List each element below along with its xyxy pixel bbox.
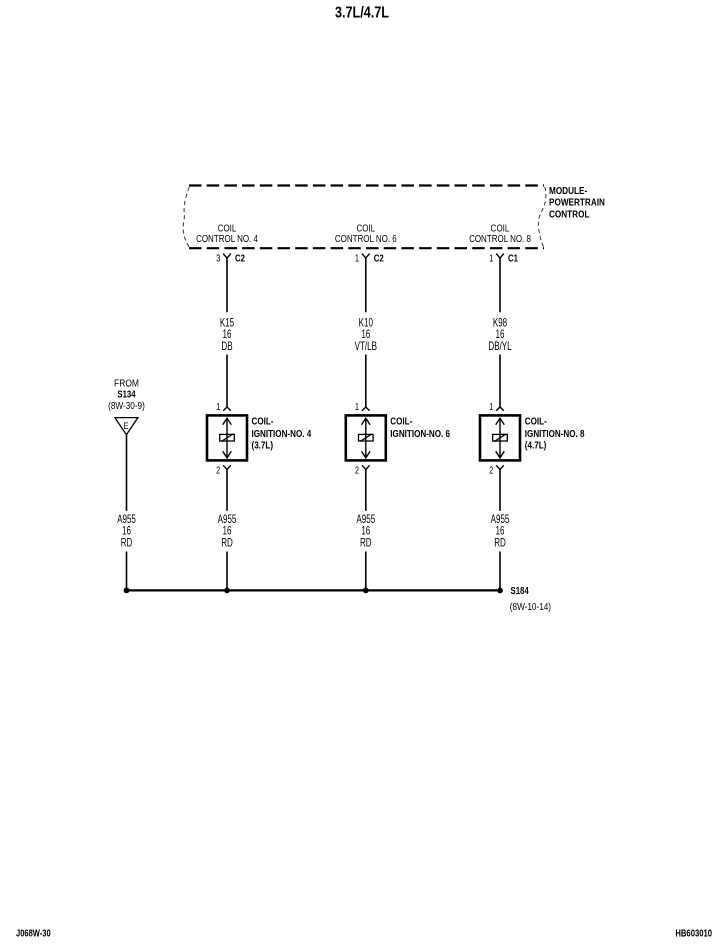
svg-text:J068W-30: J068W-30	[16, 928, 51, 939]
svg-text:(4.7L): (4.7L)	[525, 440, 547, 451]
coil no.4 pin 2 terminal fork	[223, 465, 231, 469]
svg-text:A955: A955	[491, 514, 510, 527]
pin number 1	[355, 253, 359, 264]
splice reference S134	[117, 389, 135, 400]
wire A955 coil6 branch upper segment	[365, 470, 367, 511]
svg-text:HB603010: HB603010	[675, 928, 712, 939]
svg-text:RD: RD	[121, 537, 133, 550]
svg-text:S134: S134	[117, 389, 135, 400]
wire label K10 16 VT/LB	[355, 317, 378, 353]
pin number 1	[489, 253, 493, 264]
drawing code HB603010	[675, 928, 712, 939]
component label COIL-IGNITION-NO. 8 (4.7L)	[525, 416, 585, 451]
svg-text:2: 2	[355, 464, 359, 475]
coil no.4 pin number 1	[216, 401, 220, 412]
coil no.8 pin number 1	[489, 401, 493, 412]
module PCM torn right edge	[538, 187, 546, 247]
svg-text:FROM: FROM	[114, 378, 139, 389]
svg-text:COIL: COIL	[491, 222, 510, 233]
drawing number J068W-30	[16, 928, 51, 939]
coil no.8 pin number 2	[489, 464, 493, 475]
svg-text:RD: RD	[221, 537, 233, 550]
wire A955 coil8 branch lower segment	[499, 552, 501, 591]
coil no.6 pin 2 terminal fork	[362, 465, 370, 469]
svg-text:IGNITION-NO. 8: IGNITION-NO. 8	[525, 428, 585, 439]
coil no.6 pin number 1	[355, 401, 359, 412]
svg-text:DB/YL: DB/YL	[488, 341, 512, 354]
wire A955 E branch lower segment	[126, 552, 128, 591]
page reference (8W-10-14)	[510, 601, 551, 612]
coil no.4 internal top arrow	[223, 418, 232, 425]
title 3.7L/4.7L	[335, 4, 389, 22]
svg-text:A955: A955	[356, 514, 375, 527]
wire label A955 16 RD (coil6 branch)	[356, 514, 375, 550]
svg-text:CONTROL NO. 8: CONTROL NO. 8	[469, 233, 531, 244]
wire label K15 16 DB	[220, 317, 235, 353]
svg-text:IGNITION-NO. 4: IGNITION-NO. 4	[252, 428, 312, 439]
wire label K98 16 DB/YL	[488, 317, 512, 353]
connector name C2	[374, 253, 384, 264]
svg-text:CONTROL: CONTROL	[549, 207, 590, 219]
module PCM dashed outline bottom edge	[189, 247, 544, 249]
off-page connector triangle E	[115, 418, 138, 435]
junction dot E branch	[124, 588, 130, 594]
svg-text:IGNITION-NO. 6: IGNITION-NO. 6	[390, 428, 450, 439]
svg-text:COIL: COIL	[356, 222, 375, 233]
wire A955 coil4 branch lower segment	[226, 552, 228, 591]
module PCM torn left edge	[183, 187, 189, 247]
coil no.6 internal wire	[365, 418, 367, 458]
connector C2 female terminal at module pin 3	[223, 254, 231, 259]
svg-text:DB: DB	[221, 341, 232, 354]
ignition coil no.8 box	[480, 415, 520, 460]
svg-text:COIL-: COIL-	[390, 416, 412, 427]
svg-text:A955: A955	[117, 514, 136, 527]
wire K98 lower segment	[499, 355, 501, 408]
coil no.8 internal top arrow	[496, 418, 505, 425]
svg-text:2: 2	[216, 464, 220, 475]
svg-text:VT/LB: VT/LB	[355, 341, 378, 354]
svg-text:C2: C2	[374, 253, 384, 264]
svg-text:C1: C1	[508, 253, 518, 264]
svg-text:1: 1	[355, 401, 359, 412]
wire K15 lower segment	[226, 355, 228, 408]
coil no.4 element symbol	[220, 434, 235, 442]
component label COIL-IGNITION-NO. 6	[390, 416, 450, 440]
connector C1 female terminal at module pin 1	[496, 254, 504, 259]
coil no.4 internal bottom arrow	[223, 451, 232, 458]
wire A955 coil6 branch lower segment	[365, 552, 367, 591]
coil no.8 pin 2 terminal fork	[496, 465, 504, 469]
coil no.6 pin number 2	[355, 464, 359, 475]
ignition coil no.6 box	[346, 415, 386, 460]
pin number 3	[216, 253, 220, 264]
coil no.8 internal bottom arrow	[496, 451, 505, 458]
svg-text:(8W-30-9): (8W-30-9)	[108, 400, 145, 411]
coil no.8 internal wire	[499, 418, 501, 458]
svg-text:COIL: COIL	[218, 222, 237, 233]
svg-text:E: E	[123, 420, 128, 431]
svg-text:3: 3	[216, 253, 220, 264]
svg-text:2: 2	[489, 464, 493, 475]
wire A955 coil4 branch upper segment	[226, 470, 228, 511]
svg-text:C2: C2	[235, 253, 245, 264]
svg-text:CONTROL NO. 4: CONTROL NO. 4	[196, 233, 258, 244]
wire K98 upper segment	[499, 258, 501, 312]
module pin function label COIL CONTROL NO. 8	[469, 222, 531, 244]
svg-text:RD: RD	[360, 537, 372, 550]
ignition coil no.4 box	[207, 415, 247, 460]
wire K15 upper segment	[226, 258, 228, 312]
coil no.4 pin number 2	[216, 464, 220, 475]
coil no.8 element symbol	[493, 434, 508, 442]
wire label A955 16 RD (E branch)	[117, 514, 136, 550]
wire label A955 16 RD (coil8 branch)	[491, 514, 510, 550]
svg-text:3.7L/4.7L: 3.7L/4.7L	[335, 4, 389, 22]
connector name C1	[508, 253, 518, 264]
svg-text:COIL-: COIL-	[525, 416, 547, 427]
module PCM dashed outline top edge	[189, 184, 544, 186]
svg-text:MODULE-: MODULE-	[549, 184, 587, 196]
page reference (8W-30-9)	[108, 400, 145, 411]
svg-text:CONTROL NO. 6: CONTROL NO. 6	[335, 233, 397, 244]
svg-text:1: 1	[216, 401, 220, 412]
splice name S184	[511, 585, 529, 596]
svg-text:RD: RD	[494, 537, 506, 550]
svg-text:1: 1	[489, 401, 493, 412]
svg-text:1: 1	[489, 253, 493, 264]
wire K10 upper segment	[365, 258, 367, 312]
svg-text:A955: A955	[218, 514, 237, 527]
svg-text:S184: S184	[511, 585, 529, 596]
component label COIL-IGNITION-NO. 4 (3.7L)	[252, 416, 312, 451]
coil no.6 internal bottom arrow	[362, 451, 371, 458]
coil no.8 pin 1 terminal fork	[496, 407, 504, 411]
splice S184 bus wire	[127, 589, 501, 591]
svg-text:(8W-10-14): (8W-10-14)	[510, 601, 551, 612]
junction dot coil6 branch	[363, 588, 369, 594]
wire A955 from triangle upper segment	[126, 435, 128, 511]
module pin function label COIL CONTROL NO. 6	[335, 222, 397, 244]
svg-text:1: 1	[355, 253, 359, 264]
coil no.4 internal wire	[226, 418, 228, 458]
coil no.6 element symbol	[359, 434, 374, 442]
module name label MODULE-POWERTRAIN CONTROL	[549, 184, 605, 220]
junction dot coil8 branch at splice end	[497, 588, 503, 594]
wire K10 lower segment	[365, 355, 367, 408]
label FROM	[114, 378, 139, 389]
svg-text:POWERTRAIN: POWERTRAIN	[549, 196, 605, 208]
wire A955 coil8 branch upper segment	[499, 470, 501, 511]
coil no.4 pin 1 terminal fork	[223, 407, 231, 411]
connector C2 female terminal at module pin 1	[362, 254, 370, 259]
connector name C2	[235, 253, 245, 264]
module pin function label COIL CONTROL NO. 4	[196, 222, 258, 244]
wire label A955 16 RD (coil4 branch)	[218, 514, 237, 550]
svg-text:COIL-: COIL-	[252, 416, 274, 427]
junction dot coil4 branch	[224, 588, 230, 594]
coil no.6 pin 1 terminal fork	[362, 407, 370, 411]
svg-text:(3.7L): (3.7L)	[252, 440, 274, 451]
coil no.6 internal top arrow	[362, 418, 371, 425]
